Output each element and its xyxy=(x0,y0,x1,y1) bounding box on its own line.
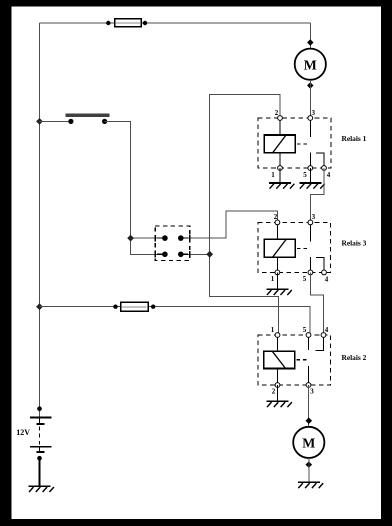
relay K1 Relais 1 xyxy=(258,109,331,179)
wire motor M2 to ground xyxy=(308,458,310,482)
wire lower rail with fuse F2 xyxy=(40,307,310,335)
wire relay K3 pin 5 to relay K2 pin 4 xyxy=(310,272,323,335)
connector X1 xyxy=(155,226,190,261)
node junction connector net xyxy=(206,251,213,258)
node motor M2 bottom terminal xyxy=(306,461,313,468)
svg-text:12V: 12V xyxy=(16,428,30,437)
motor M1 xyxy=(295,49,326,80)
ground below K1 pin 1 xyxy=(269,168,294,189)
node junction left rail / lower rail xyxy=(36,303,43,310)
ground below K1 pin 5 xyxy=(299,168,324,189)
relay K2 Relais 2 xyxy=(258,326,331,396)
svg-text:2: 2 xyxy=(275,109,279,117)
svg-text:5: 5 xyxy=(303,171,307,179)
svg-text:5: 5 xyxy=(303,326,307,334)
node junction at connector left xyxy=(127,235,134,242)
fuse F1 xyxy=(106,19,147,27)
svg-text:4: 4 xyxy=(327,171,331,179)
node motor M1 top terminal xyxy=(307,39,314,46)
svg-text:M: M xyxy=(302,436,315,451)
svg-text:3: 3 xyxy=(310,388,314,396)
svg-text:Relais 3: Relais 3 xyxy=(342,239,367,248)
svg-text:5: 5 xyxy=(303,275,307,283)
node motor M2 top terminal xyxy=(306,418,313,425)
svg-text:2: 2 xyxy=(274,213,278,221)
ground below K2 pin 2 xyxy=(267,385,292,407)
wire switch to connector X1 xyxy=(105,121,165,254)
node motor M1 bottom terminal xyxy=(307,82,314,89)
wire relay K1 pin 4 to relay K3 pin 3 xyxy=(310,168,324,222)
svg-text:Relais 2: Relais 2 xyxy=(342,353,367,362)
svg-text:4: 4 xyxy=(325,326,329,334)
wire connector X1 top-right pin to relay K3 pin 2 xyxy=(181,211,278,238)
battery B1 12V xyxy=(30,406,52,460)
wire connector X1 bottom-right pin to junction xyxy=(181,253,210,255)
wire branch to connector X1 top-left pin xyxy=(131,237,165,239)
svg-text:2: 2 xyxy=(272,388,276,396)
motor M2 xyxy=(293,427,324,458)
wire relay K2 pin 3 to motor M2 xyxy=(308,385,310,427)
svg-text:1: 1 xyxy=(271,171,275,179)
node junction left rail / switch feed xyxy=(36,118,43,125)
svg-text:3: 3 xyxy=(312,213,316,221)
switch S1 xyxy=(66,115,110,124)
ground below battery xyxy=(29,486,54,492)
ground below motor M2 xyxy=(298,482,323,488)
svg-text:4: 4 xyxy=(325,275,329,283)
svg-text:3: 3 xyxy=(311,109,315,117)
wire battery to ground xyxy=(39,458,41,486)
relay K3 Relais 3 xyxy=(258,213,331,283)
ground below K3 pin 1 xyxy=(266,272,291,295)
svg-text:1: 1 xyxy=(271,275,275,283)
svg-text:M: M xyxy=(304,57,317,72)
fuse F2 xyxy=(113,302,155,311)
wire to motor M1 xyxy=(309,23,311,49)
svg-text:1: 1 xyxy=(271,326,275,334)
svg-text:Relais 1: Relais 1 xyxy=(342,134,367,143)
wire left vertical rail xyxy=(39,23,41,417)
wire relay K1 pin 2 to relay K2 pin 1 net xyxy=(210,95,280,335)
wire motor M1 to relay K1 pin 3 xyxy=(309,80,311,118)
wire top horizontal rail xyxy=(40,22,311,24)
wire left rail to switch xyxy=(40,120,71,122)
